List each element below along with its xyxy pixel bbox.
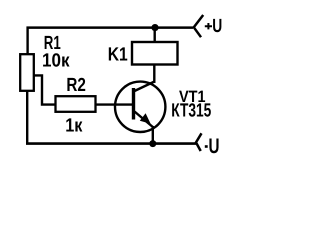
relay coil K1	[132, 42, 178, 65]
wire K1 to collector of VT1	[153, 64, 155, 83]
svg-text:K1: K1	[108, 44, 128, 65]
wire bottom rail (-U net)	[26, 142, 196, 145]
svg-text:10к: 10к	[42, 50, 70, 71]
wire emitter to bottom rail	[152, 126, 154, 144]
node junction dot on bottom rail	[149, 140, 156, 147]
wire left branch top (top rail to R1)	[26, 27, 28, 56]
svg-text:1к: 1к	[65, 115, 83, 136]
svg-text:U: U	[212, 16, 222, 37]
node junction dot on top rail	[151, 24, 158, 31]
svg-text:КТ315: КТ315	[171, 101, 211, 122]
terminal chevron +U	[194, 15, 203, 37]
svg-text:R2: R2	[66, 75, 86, 96]
svg-text:U: U	[209, 135, 220, 158]
wire top rail to K1	[153, 28, 155, 43]
transistor VT1 (NPN)	[115, 82, 165, 133]
label +U	[205, 16, 223, 37]
wire top rail (+U net)	[27, 26, 194, 29]
wire R2 to base of VT1	[96, 103, 133, 105]
label -U	[205, 135, 220, 158]
terminal chevron -U	[196, 133, 202, 151]
resistor R1	[20, 54, 34, 91]
resistor R2	[56, 96, 96, 112]
wire branch R1 tap to R2	[34, 75, 56, 104]
wire R1 bottom to bottom rail	[26, 91, 28, 145]
